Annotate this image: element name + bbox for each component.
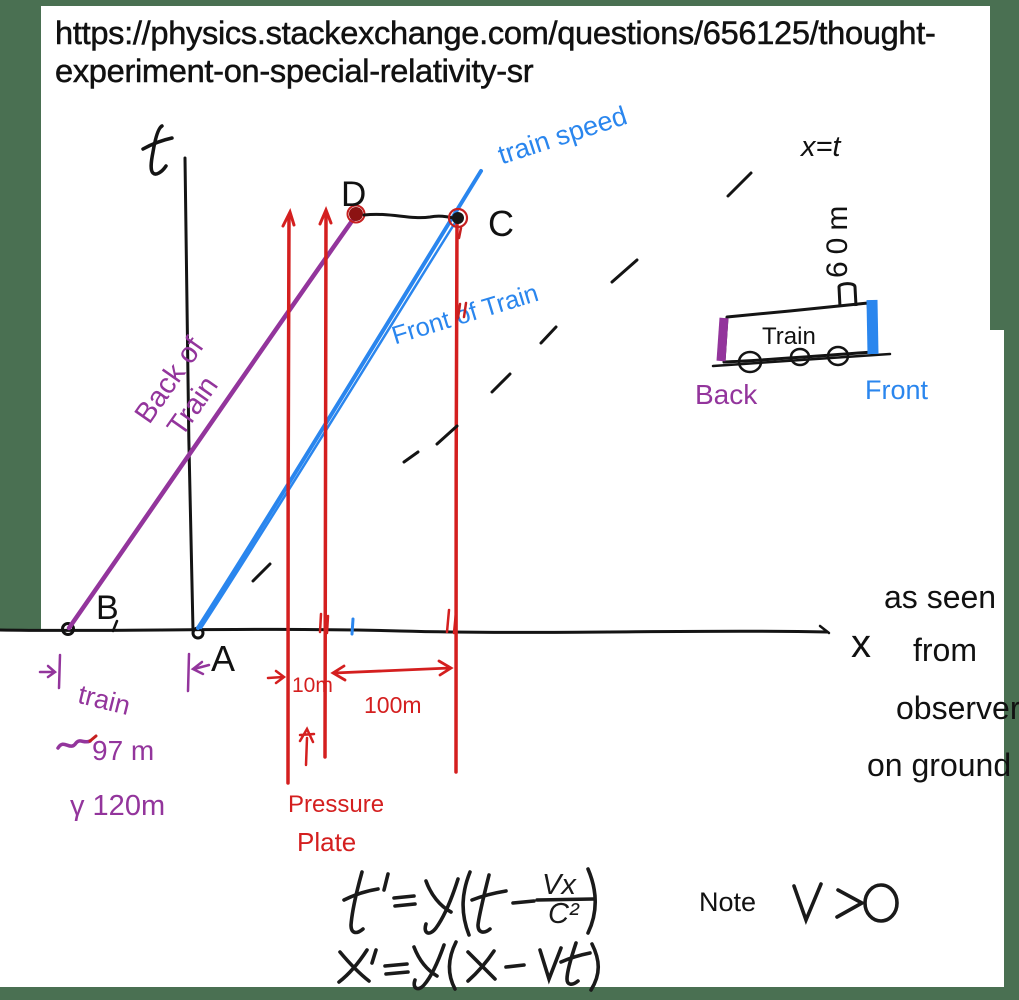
svg-text:B: B (96, 589, 119, 627)
svg-text:A: A (211, 638, 235, 679)
purple bar at A (188, 654, 189, 691)
blue worldline front of train A to C (double stroke) (198, 171, 481, 628)
node A dot (193, 628, 203, 638)
svg-text:Train: Train (762, 323, 816, 350)
purple arrow into A (193, 662, 209, 674)
black wavy line D to C (364, 214, 453, 218)
formula x' = gamma (x - vt) (339, 942, 598, 990)
svg-text:C: C (488, 203, 514, 244)
svg-text:Note: Note (699, 887, 756, 917)
svg-text:10m: 10m (292, 674, 333, 697)
svg-text:60m: 60m (821, 199, 854, 278)
red tick pair on red line 3 (458, 303, 466, 318)
red vertical line 3 (x=456 below C) (456, 222, 457, 772)
svg-text:C²: C² (548, 898, 580, 930)
svg-text:experiment-on-special-relativi: experiment-on-special-relativity-sr (55, 52, 534, 89)
dash G (253, 564, 270, 581)
svg-text:Front: Front (865, 375, 929, 405)
label ~97 m (purple) (58, 741, 90, 748)
formula t' = gamma(t - vx/c2) (344, 869, 595, 935)
svg-text:x: x (851, 622, 871, 666)
blue tick on axis (352, 619, 353, 634)
purple arrow into B (left margin) (40, 666, 55, 677)
dash C (541, 327, 556, 343)
dash E (437, 426, 457, 444)
train sketch: body outline (724, 303, 872, 362)
svg-text:x=t: x=t (799, 131, 842, 163)
green border bottom strip (0, 987, 1019, 1000)
x axis end tick (820, 626, 829, 633)
svg-text:as seen: as seen (884, 579, 996, 615)
red up arrow (300, 729, 314, 765)
svg-text:Vx: Vx (542, 869, 577, 901)
svg-text:D: D (341, 175, 366, 214)
point C dot black with red ring (452, 212, 464, 224)
svg-text:Plate: Plate (297, 827, 356, 857)
dash F (404, 452, 418, 462)
svg-text:observer: observer (896, 690, 1019, 726)
green border right strip (990, 0, 1019, 330)
svg-text:97 m: 97 m (92, 735, 154, 766)
x=t dashed diagonal: dash A (728, 173, 751, 196)
svg-text:100m: 100m (364, 692, 422, 718)
red hash on axis at x=322 (320, 614, 328, 633)
label Back of Train (purple, rotated) (129, 331, 239, 449)
dash D (492, 374, 510, 392)
B tick (113, 621, 117, 631)
label V>0 (794, 884, 897, 921)
red hash on axis at x=452 (447, 610, 456, 633)
point D dot (dark red) (349, 207, 363, 221)
red arrowhead line2 (320, 210, 331, 224)
red arrowhead line1 (283, 212, 294, 226)
red vertical line 1 (x=288) (288, 216, 289, 783)
dash B (612, 260, 637, 282)
red arrow into 10m gap (268, 671, 284, 683)
green border left strip (0, 0, 41, 629)
small red tick below C (459, 228, 461, 238)
train ground line (713, 354, 890, 366)
purple worldline back of train B to D (69, 214, 357, 628)
x axis (horizontal) (0, 629, 827, 632)
svg-text:on ground: on ground (867, 747, 1011, 783)
node B dot (63, 624, 74, 635)
wheel 1 (739, 352, 761, 372)
wheel 2 (791, 349, 809, 365)
chimney (839, 284, 856, 307)
svg-text:Pressure: Pressure (288, 791, 384, 818)
wheel 3 (828, 347, 848, 365)
t axis label (151, 126, 166, 174)
svg-text:https://physics.stackexchange.: https://physics.stackexchange.com/questi… (55, 14, 936, 51)
svg-text:Back: Back (695, 379, 758, 410)
red vertical line 2 (x=325) (325, 213, 326, 757)
purple bar at B (59, 655, 60, 688)
red double arrow 100m (333, 661, 451, 680)
svg-text:γ 120m: γ 120m (70, 790, 165, 822)
t axis (vertical) (185, 158, 193, 630)
train left wall purple (721, 318, 724, 361)
green border top strip (0, 0, 1019, 6)
train right wall blue (872, 300, 873, 354)
svg-text:from: from (913, 632, 977, 668)
